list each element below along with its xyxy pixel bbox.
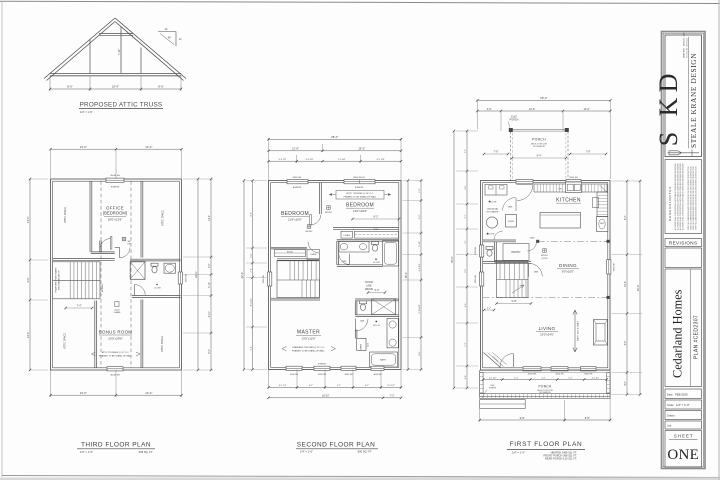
plan3 outer wall <box>51 179 182 370</box>
svg-text:LINEN: LINEN <box>310 254 317 256</box>
plan2 bedroom divider wall <box>319 183 321 214</box>
job box <box>665 421 702 429</box>
plan1 kitchen dining break line <box>538 240 609 242</box>
svg-text:ABOVE: ABOVE <box>365 288 374 291</box>
svg-text:1/4" = 1'-0": 1/4" = 1'-0" <box>80 110 93 114</box>
svg-text:ONE: ONE <box>667 447 699 463</box>
truss top chord right <box>115 18 186 79</box>
svg-text:SECOND FLOOR PLAN: SECOND FLOOR PLAN <box>297 442 375 449</box>
svg-text:8'-3 1/2": 8'-3 1/2" <box>251 298 253 306</box>
svg-text:13'-0": 13'-0" <box>80 391 87 395</box>
plan3 office door <box>110 237 112 250</box>
svg-text:2'-8": 2'-8" <box>465 375 467 379</box>
svg-text:3050 SH: 3050 SH <box>569 177 578 179</box>
svg-text:BY VENDOR: BY VENDOR <box>539 392 551 394</box>
plan1 smoke det <box>543 249 547 253</box>
svg-text:REAR PORCH 120 SQ. FT.: REAR PORCH 120 SQ. FT. <box>545 457 577 461</box>
svg-text:28'-0": 28'-0" <box>331 135 338 139</box>
plan2 closet band right <box>355 231 399 238</box>
svg-text:5'-10 1/2": 5'-10 1/2" <box>419 304 421 313</box>
truss bottom chord <box>50 73 181 75</box>
svg-text:REVISIONS: REVISIONS <box>669 240 698 245</box>
svg-text:EGRESS: EGRESS <box>111 187 120 189</box>
plan2 wd closet <box>387 319 398 348</box>
svg-text:5'-7": 5'-7" <box>309 385 313 387</box>
svg-text:DRAFTING · DESIGN · CAD: DRAFTING · DESIGN · CAD <box>683 32 686 58</box>
plan2 truss note box <box>336 191 384 200</box>
svg-text:PROPOSED ATTIC TRUSS: PROPOSED ATTIC TRUSS <box>80 102 163 109</box>
svg-text:14'-0": 14'-0" <box>26 216 30 223</box>
svg-text:SM DET: SM DET <box>305 231 313 233</box>
plan1 stairs <box>497 262 529 297</box>
svg-text:DW: DW <box>558 189 561 191</box>
truss dimension line <box>49 76 51 91</box>
plan3 bottom dimension line <box>50 370 52 397</box>
plan2 linen closet hall <box>341 231 353 238</box>
truss web king post <box>120 27 122 74</box>
svg-text:4'x4': 4'x4' <box>490 385 495 387</box>
svg-text:40 LITE: 40 LITE <box>373 262 380 264</box>
plan1 left wall window mid <box>480 272 484 286</box>
svg-text:BATH: BATH <box>380 359 386 362</box>
svg-text:EGRESS: EGRESS <box>318 364 327 366</box>
svg-text:14'-0": 14'-0" <box>209 215 211 221</box>
svg-text:FURN: FURN <box>508 221 514 223</box>
svg-text:2'-4 1/2": 2'-4 1/2" <box>419 263 421 271</box>
plan2 smoke detector right <box>327 206 331 210</box>
plan3 knee wall dashed left <box>100 181 102 368</box>
svg-text:3'-1": 3'-1" <box>465 214 467 218</box>
svg-text:2050 SH: 2050 SH <box>475 246 477 255</box>
svg-text:14Wx60GAL: 14Wx60GAL <box>487 208 499 211</box>
svg-text:4D WALL: 4D WALL <box>101 284 104 292</box>
plan2 bathroom walls <box>337 238 399 240</box>
plan1 front porch <box>480 370 610 396</box>
svg-text:CATH. CLG 8' WALL: CATH. CLG 8' WALL <box>577 320 580 341</box>
svg-text:2'-6": 2'-6" <box>251 253 253 258</box>
plan1 stair up arrow <box>512 285 524 293</box>
svg-text:2468: 2468 <box>360 320 364 322</box>
plan3 stairwell <box>53 262 100 299</box>
svg-text:FRAMED TO BE STAND-UP WALL: FRAMED TO BE STAND-UP WALL <box>292 349 326 352</box>
SKD logo box <box>665 35 702 157</box>
plan2 hall door to bedroom <box>308 242 319 253</box>
plan3 interior wall right room <box>140 181 142 257</box>
plan1 kitchen counter right <box>597 192 608 217</box>
plan3 stair top wall <box>53 258 115 260</box>
truss web vertical right <box>140 48 142 74</box>
svg-text:G E N E R A L N O T E S: G E N E R A L N O T E S <box>668 187 672 221</box>
plan2 left dimension lines <box>243 181 245 370</box>
svg-text:LINEN: LINEN <box>361 344 363 350</box>
svg-text:1/4" = 1'-0": 1/4" = 1'-0" <box>676 403 690 407</box>
svg-text:9'0"x10'0": 9'0"x10'0" <box>562 269 574 273</box>
plan3 hall door right <box>115 246 120 248</box>
svg-text:STEALE KRANE DESIGN: STEALE KRANE DESIGN <box>689 53 698 148</box>
svg-text:EGRESS: EGRESS <box>355 187 364 189</box>
second floor plan group <box>263 177 401 376</box>
svg-text:3050 SH: 3050 SH <box>344 374 353 376</box>
general notes text col2 <box>687 166 698 230</box>
plan3 top dimension line <box>50 150 52 178</box>
svg-text:10'-6": 10'-6" <box>112 85 119 89</box>
plan3 top window 30x30 <box>106 178 124 182</box>
svg-text:3050 SH: 3050 SH <box>373 374 382 376</box>
svg-text:40 LITE: 40 LITE <box>154 288 161 290</box>
SKD divider <box>688 37 690 149</box>
plan2 wic label <box>375 321 377 323</box>
plan2 master top wall <box>271 297 320 299</box>
plan3 bottom window 30x30 <box>107 367 123 371</box>
truss group <box>44 18 186 114</box>
svg-text:509 SQ. FT.: 509 SQ. FT. <box>139 450 154 454</box>
svg-text:3'-1": 3'-1" <box>465 239 467 243</box>
plan2 master tub <box>370 352 398 367</box>
plan1 hot water tank <box>486 217 497 228</box>
plan2 left wall window <box>268 272 272 286</box>
svg-text:7'-2": 7'-2" <box>390 395 395 398</box>
plan3 vanity sink <box>164 263 176 273</box>
plan1 rear porch dims <box>484 153 508 155</box>
svg-text:3'-10": 3'-10" <box>209 282 211 288</box>
truss collar tie <box>99 33 133 35</box>
svg-text:5'-7": 5'-7" <box>569 377 573 379</box>
truss interior height dim <box>120 30 122 72</box>
svg-text:7'-4": 7'-4" <box>77 305 82 308</box>
svg-text:3050 SH: 3050 SH <box>584 373 593 375</box>
svg-text:9'-8": 9'-8" <box>512 300 517 303</box>
svg-text:PANTRY: PANTRY <box>511 251 521 254</box>
plan1 porch inner dims <box>483 379 607 381</box>
svg-text:8'-0": 8'-0" <box>251 212 253 217</box>
plan3 return air chase <box>115 302 119 307</box>
third floor plan group <box>51 175 188 376</box>
plan3 right dimension lines <box>197 179 199 370</box>
svg-text:5'-0": 5'-0" <box>375 289 380 292</box>
general notes text col1 <box>674 163 685 230</box>
svg-text:4'-5": 4'-5" <box>465 303 467 307</box>
plan1 fridge <box>597 217 608 232</box>
plan1 utility walls <box>483 239 516 241</box>
svg-text:Cedarland Homes: Cedarland Homes <box>671 289 685 378</box>
sheet box <box>665 431 702 468</box>
svg-text:6'-2": 6'-2" <box>209 349 211 354</box>
plan1 kitchen window <box>566 180 581 184</box>
svg-text:13'-0": 13'-0" <box>145 391 152 395</box>
plan2 bedroom wall left bottom <box>271 246 307 248</box>
svg-text:8'-0": 8'-0" <box>67 85 73 89</box>
svg-text:5'-7": 5'-7" <box>365 385 369 387</box>
svg-text:STEPS: STEPS <box>489 388 497 390</box>
plan3 toilet <box>151 263 158 266</box>
svg-text:SM DET: SM DET <box>541 255 549 257</box>
plan1 stair door dining <box>527 263 529 277</box>
svg-text:4'-1 1/2": 4'-1 1/2" <box>489 377 497 379</box>
plan2 bath door <box>339 254 350 264</box>
svg-text:13'0"x10'0": 13'0"x10'0" <box>353 209 367 213</box>
svg-text:28'-0": 28'-0" <box>540 96 547 100</box>
svg-text:6'-10": 6'-10" <box>209 311 211 317</box>
svg-text:1/4" = 1'-0": 1/4" = 1'-0" <box>80 450 93 454</box>
plan3 bonus dim 7-4 <box>66 307 93 309</box>
svg-text:7'-10": 7'-10" <box>117 49 121 56</box>
plan1 front door <box>500 354 513 367</box>
svg-text:3'-2": 3'-2" <box>209 263 211 268</box>
plan1 steps <box>480 400 526 409</box>
plan1 closet door arc <box>503 198 516 211</box>
plan2 top window right double <box>344 180 375 184</box>
svg-text:BEDROOM: BEDROOM <box>281 211 309 217</box>
svg-text:1/4" = 1'-0": 1/4" = 1'-0" <box>300 450 313 454</box>
svg-text:2'-2": 2'-2" <box>487 308 492 310</box>
svg-text:PORCH: PORCH <box>532 138 546 142</box>
plan3 bath walls <box>130 258 181 260</box>
roof pitch symbol <box>158 31 176 33</box>
svg-text:BEDROOM: BEDROOM <box>346 203 374 209</box>
plan3 office door wall <box>91 251 115 253</box>
svg-text:ATTIC TRUSSES @ 24" O.C.: ATTIC TRUSSES @ 24" O.C. <box>346 192 374 195</box>
svg-text:2468: 2468 <box>342 261 346 263</box>
svg-text:32'-0": 32'-0" <box>240 272 244 279</box>
svg-text:13'-0": 13'-0" <box>80 145 87 149</box>
svg-text:3050 SH (2): 3050 SH (2) <box>353 177 365 179</box>
svg-text:BY VENDOR: BY VENDOR <box>533 146 545 148</box>
svg-text:4'-1 1/2": 4'-1 1/2" <box>592 377 600 379</box>
svg-text:W.I.CLT: W.I.CLT <box>373 325 381 327</box>
svg-text:ATTIC SPACE: ATTIC SPACE <box>64 207 67 223</box>
svg-text:Date:: Date: <box>667 392 673 396</box>
svg-text:PLAN #CED2307: PLAN #CED2307 <box>694 315 700 359</box>
plan2 smoke detector left <box>307 225 311 229</box>
svg-text:3050 SH: 3050 SH <box>290 374 299 376</box>
plan1 pantry closets top <box>485 185 507 196</box>
plan1 rear porch <box>511 129 569 131</box>
scale box <box>665 400 702 409</box>
svg-text:13'0"x14'6": 13'0"x14'6" <box>540 332 554 336</box>
first floor plan group <box>475 116 616 409</box>
svg-text:4'-0": 4'-0" <box>465 185 467 189</box>
svg-text:7'-1 3/4": 7'-1 3/4" <box>337 159 345 161</box>
general notes box <box>665 160 702 234</box>
plan1 kitchen sink <box>566 182 582 193</box>
svg-text:K: K <box>654 97 683 116</box>
plan2 bath toilet <box>372 242 379 245</box>
svg-text:3050 SH: 3050 SH <box>555 373 564 375</box>
svg-text:SM DET: SM DET <box>325 212 333 214</box>
svg-text:15'-0": 15'-0" <box>358 147 365 151</box>
svg-text:5'-7": 5'-7" <box>514 377 518 379</box>
svg-text:5'-3 1/2": 5'-3 1/2" <box>279 159 287 161</box>
svg-text:30x30 SH: 30x30 SH <box>110 374 120 376</box>
svg-text:THIRD FLOOR PLAN: THIRD FLOOR PLAN <box>81 442 151 449</box>
svg-text:MASTER: MASTER <box>297 330 320 336</box>
svg-text:S: S <box>654 132 683 146</box>
svg-text:LINEN: LINEN <box>344 235 351 237</box>
plan3 left dimension line <box>29 179 31 370</box>
plan3 interior wall left room <box>89 181 91 252</box>
svg-text:5'-3": 5'-3" <box>465 342 467 346</box>
svg-text:3050 SH: 3050 SH <box>263 274 265 283</box>
plan3 bath door <box>135 285 145 295</box>
svg-text:35'-0": 35'-0" <box>450 256 454 263</box>
svg-text:4'-0": 4'-0" <box>465 268 467 272</box>
plan1 left dimension lines <box>453 131 455 388</box>
svg-text:13'6"x12'6": 13'6"x12'6" <box>301 336 315 340</box>
svg-text:3050 SH: 3050 SH <box>293 177 302 179</box>
plan2 wic door <box>356 319 368 331</box>
plan1 porch right edge hatch <box>607 373 610 394</box>
drawn box <box>665 411 702 420</box>
svg-text:Job:: Job: <box>667 424 672 428</box>
svg-text:10'0"x13'6": 10'0"x13'6" <box>108 218 123 222</box>
svg-text:4'-0": 4'-0" <box>26 277 30 282</box>
plan2 dim 5-0 <box>368 292 385 294</box>
revisions header box <box>665 239 702 247</box>
svg-text:7'-8": 7'-8" <box>494 151 499 154</box>
plan1 outer wall <box>481 181 611 371</box>
svg-text:DINING: DINING <box>559 263 577 268</box>
svg-text:4'-1 1/2": 4'-1 1/2" <box>387 385 395 387</box>
svg-text:EGRESS: EGRESS <box>293 187 302 189</box>
plan2 master bath walls <box>355 298 399 300</box>
svg-text:FRAMED TO BE STAND-UP WALL: FRAMED TO BE STAND-UP WALL <box>344 195 378 198</box>
svg-text:LINE: LINE <box>366 285 372 288</box>
svg-text:10'0"x29'6": 10'0"x29'6" <box>108 337 123 341</box>
date box <box>665 389 702 399</box>
svg-text:MIN HEADROOM 6'8": MIN HEADROOM 6'8" <box>58 270 61 290</box>
plan2 top window left <box>287 180 308 184</box>
plan2 bottom windows <box>286 366 302 370</box>
plan1 kitchen counter top <box>534 184 607 192</box>
svg-text:40 LITE: 40 LITE <box>487 234 495 236</box>
svg-text:14'-0": 14'-0" <box>26 332 30 339</box>
plan3 shower <box>130 262 145 280</box>
plan2 bottom dimension lines <box>268 370 270 390</box>
svg-text:Drawn:: Drawn: <box>667 414 675 418</box>
svg-text:BONUS ROOM: BONUS ROOM <box>99 330 133 335</box>
plan2 bedroom door left <box>311 215 321 225</box>
svg-text:4'-0": 4'-0" <box>487 108 492 111</box>
svg-text:9'-8": 9'-8" <box>520 416 525 420</box>
plan2 top dimension lines <box>268 138 270 181</box>
svg-text:6'-6": 6'-6" <box>625 341 627 346</box>
plan1 dining living break line <box>483 296 608 298</box>
svg-text:26'-0": 26'-0" <box>404 272 408 279</box>
svg-text:2'-6": 2'-6" <box>251 268 253 273</box>
svg-text:PORCH: PORCH <box>538 384 551 388</box>
svg-text:5'-0": 5'-0" <box>465 149 467 153</box>
svg-text:PORCH: PORCH <box>510 118 519 121</box>
plan1 fireplace <box>594 320 608 346</box>
page right edge <box>718 0 720 480</box>
plan1 range <box>593 198 599 208</box>
svg-text:3'-0": 3'-0" <box>419 214 421 219</box>
svg-text:ATTIC SPACE: ATTIC SPACE <box>162 210 165 226</box>
plan1 powder toilet <box>486 247 493 250</box>
svg-text:35'-0": 35'-0" <box>636 284 640 291</box>
cedarland homes box <box>665 269 702 387</box>
svg-text:3050 SH: 3050 SH <box>614 262 616 271</box>
svg-text:18'-10": 18'-10" <box>322 395 330 398</box>
svg-text:8'-2": 8'-2" <box>625 215 627 220</box>
plan2 vanity <box>339 242 369 253</box>
plan1 bottom dimension line <box>479 409 481 422</box>
page bottom edge <box>2 476 720 478</box>
svg-text:CHASE: CHASE <box>114 311 122 314</box>
svg-text:3050 SH: 3050 SH <box>318 374 327 376</box>
svg-text:FIRST FLOOR PLAN: FIRST FLOOR PLAN <box>510 441 583 448</box>
svg-text:18'-2": 18'-2" <box>625 281 627 287</box>
plan1 rear door <box>516 180 533 184</box>
truss web vertical left <box>89 40 91 74</box>
svg-text:ATTIC SPACE: ATTIC SPACE <box>161 336 164 352</box>
svg-text:24x0: 24x0 <box>368 343 370 347</box>
title block outer frame <box>662 32 706 469</box>
svg-text:S H E E T: S H E E T <box>674 433 693 438</box>
svg-text:LIVING: LIVING <box>539 326 556 331</box>
page left edge <box>1 1 3 477</box>
svg-text:12'-0": 12'-0" <box>292 147 299 151</box>
svg-text:(BEDROOM): (BEDROOM) <box>103 211 128 216</box>
svg-text:D: D <box>654 74 683 93</box>
svg-text:5'-0 1/2": 5'-0 1/2" <box>306 159 314 161</box>
svg-text:Scale:: Scale: <box>667 403 674 407</box>
plan2 hall wall to bath <box>333 227 399 229</box>
svg-text:P.O. BOX 1/4 · 8D-P.555.0: P.O. BOX 1/4 · 8D-P.555.0 <box>687 38 689 58</box>
plan1 right dimension lines <box>639 181 641 395</box>
plan1 bottom windows <box>523 367 541 371</box>
svg-text:5'-7": 5'-7" <box>337 385 341 387</box>
svg-text:ROD: ROD <box>374 229 379 231</box>
plan3 knee wall dashed right <box>130 181 132 368</box>
svg-text:ATTIC TRUSSES @ 24" O.C.: ATTIC TRUSSES @ 24" O.C. <box>102 351 130 354</box>
svg-text:4'-1 1/2": 4'-1 1/2" <box>279 385 287 387</box>
plan1 powder window <box>480 245 484 257</box>
plan2 master toilet <box>360 301 367 304</box>
plan2 dim 8-2 <box>353 218 400 220</box>
plan3 bath 40 lite <box>156 284 158 286</box>
plan1 right wall window top <box>607 260 611 275</box>
plan1 island <box>540 213 581 229</box>
svg-text:7'-8": 7'-8" <box>586 151 591 154</box>
svg-text:ROOM: ROOM <box>365 281 372 284</box>
plan1 pantry <box>503 244 529 261</box>
svg-text:5'-7": 5'-7" <box>542 377 546 379</box>
plan3 bath window right wall <box>178 272 182 284</box>
plan1 coat closet <box>484 353 501 368</box>
plan2 stair top wall <box>277 258 320 260</box>
plan1 dim 2-2 <box>484 309 494 311</box>
plan1 top dimension lines <box>476 101 478 129</box>
svg-text:FEB 2020: FEB 2020 <box>675 392 688 396</box>
svg-text:8'-6": 8'-6" <box>585 416 590 420</box>
svg-text:11'6"x10'0": 11'6"x10'0" <box>288 218 302 222</box>
page top edge <box>0 1 720 3</box>
svg-text:45°: 45° <box>168 37 172 40</box>
svg-text:9'-4": 9'-4" <box>537 155 542 158</box>
svg-text:FRAMED TO BE STAND-UP WALL: FRAMED TO BE STAND-UP WALL <box>99 355 133 358</box>
plan2 left closets band <box>275 250 306 257</box>
plan2 outer wall <box>269 181 402 370</box>
drafting pencil icon <box>668 150 700 157</box>
svg-text:3050 SH: 3050 SH <box>475 274 477 283</box>
svg-text:4'-0": 4'-0" <box>625 381 627 386</box>
svg-text:12'-0": 12'-0" <box>529 108 535 111</box>
svg-text:7'-0": 7'-0" <box>419 188 421 193</box>
plan2 right dimension lines <box>407 181 409 370</box>
svg-text:4'-6": 4'-6" <box>419 351 421 356</box>
svg-text:ATTIC SPACE: ATTIC SPACE <box>64 333 67 349</box>
